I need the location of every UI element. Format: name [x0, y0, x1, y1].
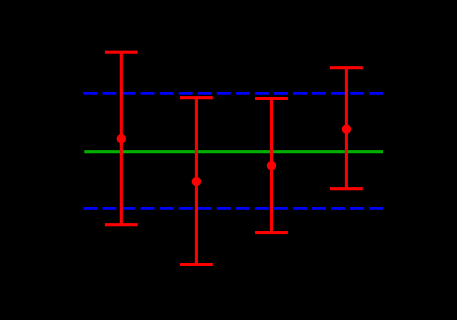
upper control limit (blue dashed) — [83, 92, 383, 95]
error bar 2 — [180, 98, 213, 265]
error bar 1 — [105, 52, 138, 225]
error bar 4 — [330, 68, 363, 189]
mean line (green) — [84, 150, 383, 153]
error bar 3 — [255, 99, 288, 233]
lower control limit (blue dashed) — [83, 207, 383, 210]
